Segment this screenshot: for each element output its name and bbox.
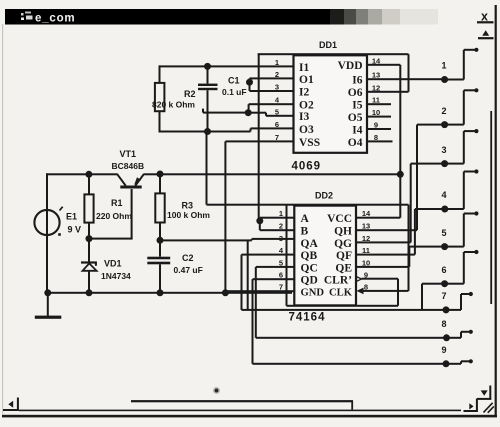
wire A to B (259, 218, 261, 231)
wire O1 to I2 (249, 78, 251, 91)
wire DD2 pinQB (242, 254, 295, 256)
chip DD2 right pin names (324, 213, 353, 299)
svg-text:1: 1 (441, 61, 446, 71)
label terminal 5 (441, 228, 446, 238)
switch contact 3 (445, 129, 479, 165)
svg-text:0.1 uF: 0.1 uF (222, 87, 247, 97)
switch contact 8 (447, 330, 473, 339)
node terminal 3 (441, 160, 448, 167)
node gnd C2 (157, 289, 164, 296)
resize grip (484, 403, 494, 413)
switch contact 5 (445, 211, 479, 247)
node gnd VD1 (86, 289, 93, 296)
switch contact 6 (445, 250, 479, 285)
chip DD1 left pin names (299, 62, 320, 149)
resistor R3 (155, 193, 164, 222)
chip DD2 right pin numbers (362, 209, 371, 292)
stray mark (213, 387, 220, 394)
wire QA down (247, 240, 249, 310)
svg-text:QF: QF (336, 250, 352, 262)
wire C2 top (159, 240, 161, 256)
node R3 top (157, 171, 164, 178)
wire VD1 bottom (88, 271, 90, 293)
wire DD2 pinQD (253, 278, 295, 280)
chip DD1 right pin names (338, 60, 363, 149)
svg-text:VD1: VD1 (104, 259, 122, 269)
wire R2 top (159, 65, 161, 83)
switch contact 2 (445, 88, 479, 125)
node gnd VSS (222, 289, 229, 296)
wire feedback bus (258, 54, 260, 221)
wire osc to CLK vertical (206, 132, 208, 205)
wire DD2 pinGND (225, 290, 294, 292)
wire I3 stub left (202, 109, 248, 114)
svg-text:O2: O2 (299, 100, 314, 112)
svg-text:2: 2 (441, 106, 446, 116)
transistor VT1 (117, 174, 143, 188)
wire DD1 pin8 stub (367, 140, 393, 142)
svg-text:4: 4 (441, 190, 446, 200)
svg-text:R2: R2 (184, 89, 196, 99)
svg-text:4069: 4069 (292, 160, 322, 172)
window title bar (5, 9, 438, 25)
svg-text:B: B (301, 226, 309, 238)
wire R2 bottom (159, 111, 161, 131)
wire DD1 pin12 (367, 91, 409, 93)
wire ground rail (46, 292, 292, 294)
svg-text:I6: I6 (352, 75, 362, 87)
svg-text:5: 5 (441, 228, 446, 238)
label 100 k Ohm (167, 210, 210, 220)
label C1 (228, 76, 240, 86)
wire QD down (252, 279, 254, 364)
svg-text:74164: 74164 (289, 312, 326, 324)
wire VT1 base (89, 189, 133, 240)
label DD1 (319, 40, 337, 50)
svg-text:O5: O5 (348, 112, 363, 124)
node terminal 6 (441, 280, 448, 287)
switch contact 4 (445, 169, 479, 210)
wire feedback top (258, 53, 409, 55)
wire osc top rail (159, 65, 294, 67)
svg-text:A: A (301, 213, 310, 225)
node VDD rail (397, 171, 404, 178)
title text e_com (35, 12, 75, 24)
label terminal 8 (441, 319, 446, 329)
node R3 C2 (157, 237, 164, 244)
wire DD1 pin2 (250, 77, 294, 79)
label terminal 1 (441, 61, 446, 71)
svg-text:DD1: DD1 (319, 40, 337, 50)
svg-text:QB: QB (301, 250, 318, 262)
label VD1 (104, 259, 122, 269)
label terminal 9 (441, 345, 446, 355)
wire DD2 pin10 QE (356, 266, 410, 268)
wire DD2 pin8 CLK (364, 290, 409, 292)
horizontal scrollbar track (19, 410, 461, 412)
wire O6 feedback vertical (408, 54, 410, 92)
wire DD1 pin7 VSS (225, 140, 293, 142)
node O1 I2 (246, 79, 253, 86)
svg-text:C2: C2 (182, 253, 194, 263)
node gnd E1 (44, 289, 51, 296)
label VT1 (120, 149, 137, 159)
node O2 I3 (245, 109, 252, 116)
svg-text:O4: O4 (348, 137, 363, 149)
wire C1 bottom (207, 90, 209, 131)
vertical scrollbar thumb (490, 111, 492, 304)
chip DD1 left pin numbers (275, 58, 280, 142)
svg-text:100 k Ohm: 100 k Ohm (167, 210, 210, 220)
wire QB down (241, 255, 243, 310)
wire CLR down (397, 279, 399, 306)
label 9 V (68, 225, 82, 235)
wire DD1 pin9 stub (367, 128, 392, 130)
wire terminal 6 down (421, 284, 423, 310)
wire osc to CLK horizontal (207, 204, 409, 206)
chip DD2 left pin numbers (279, 209, 284, 292)
label DD2 (315, 191, 333, 201)
svg-text:VDD: VDD (338, 60, 363, 72)
wire DD1 pin13 to terminal 1 (367, 78, 443, 80)
wire O2 to I3 (248, 104, 250, 113)
label R1 (111, 198, 123, 208)
wire osc branch down (286, 205, 288, 306)
svg-text:I2: I2 (299, 86, 309, 98)
svg-text:7: 7 (441, 291, 446, 301)
wire DD1 pin11 stub (367, 103, 392, 105)
svg-text:1: 1 (275, 58, 279, 67)
svg-text:QH: QH (334, 226, 352, 238)
wire DD1 pin10 stub (367, 116, 392, 118)
svg-text:VCC: VCC (327, 213, 352, 225)
chip DD1 box (294, 55, 368, 153)
wire R1 bottom (88, 223, 90, 239)
wire terminal 8 rail (256, 337, 444, 339)
chip DD2 box (294, 206, 356, 306)
label terminal 6 (441, 265, 446, 275)
wire QE to terminal 5 (408, 246, 442, 267)
ground symbol (35, 293, 62, 319)
svg-text:I1: I1 (299, 62, 309, 74)
wire DD1 pin1 (0, 0, 1, 1)
wire +V rail (46, 173, 401, 175)
label terminal 2 (441, 106, 446, 116)
label 74164 (289, 312, 326, 324)
resistor R2 (155, 83, 165, 111)
window right edge (495, 5, 497, 415)
wire DD2 pin11 QF (356, 254, 415, 256)
scroll down arrow button (477, 386, 491, 400)
svg-text:QC: QC (301, 262, 318, 274)
wire R1 top (88, 174, 90, 194)
window left edge (2, 24, 3, 414)
chip DD2 left pin names (301, 213, 325, 299)
label BC846B (112, 161, 145, 171)
label 0.1 uF (222, 87, 247, 97)
svg-text:6: 6 (275, 120, 279, 129)
wire DD2 pin9 CLR (362, 278, 399, 280)
svg-text:GND: GND (301, 288, 325, 299)
scroll up arrow button (478, 30, 494, 39)
label terminal 7 (441, 291, 446, 301)
wire DD2 pin13 QH (356, 229, 417, 231)
wire C1 top (207, 66, 209, 83)
node terminal 1 (441, 76, 448, 83)
wire VDD VCC vertical (399, 65, 401, 218)
node R1 top (85, 171, 92, 178)
svg-text:0.47 uF: 0.47 uF (174, 265, 203, 275)
label E1 (66, 212, 77, 222)
wire E1 through (46, 173, 48, 292)
resistor R1 (84, 194, 93, 222)
svg-text:I4: I4 (352, 124, 362, 136)
scroll left arrow button (3, 398, 19, 412)
wire DD2 pin12 QG (356, 241, 411, 243)
capacitor C2 (147, 257, 170, 265)
wire DD2 pinB (260, 229, 295, 231)
svg-text:8: 8 (441, 319, 446, 329)
svg-text:O1: O1 (299, 74, 314, 86)
switch contact 1 (445, 48, 479, 81)
svg-text:220 Ohm: 220 Ohm (96, 211, 132, 221)
svg-text:R1: R1 (111, 198, 123, 208)
svg-text:VT1: VT1 (120, 149, 137, 159)
wire C2 bottom (159, 264, 161, 293)
label 4069 (292, 160, 322, 172)
horizontal scrollbar thumb (131, 400, 353, 410)
svg-text:BC846B: BC846B (112, 161, 145, 171)
node C1 top (204, 63, 211, 70)
wire QF to terminal 4 (414, 208, 442, 255)
svg-text:QA: QA (301, 238, 319, 250)
svg-text:CLK: CLK (329, 288, 353, 299)
scroll right arrow button (464, 399, 478, 413)
wire R3 bottom (159, 223, 161, 241)
svg-text:QD: QD (301, 275, 318, 287)
svg-text:CLR’: CLR’ (324, 275, 352, 287)
wire CLK from osc vertical (408, 205, 410, 291)
wire DD1 pin3 (250, 90, 294, 92)
svg-text:O6: O6 (348, 87, 363, 99)
wire VD1 top (88, 239, 90, 262)
wire DD1 pin14 (367, 64, 401, 66)
wire R3 top (159, 174, 161, 193)
label 0.47 uF (174, 265, 203, 275)
node terminal 7 (443, 306, 450, 313)
label 220 Ohm (96, 211, 132, 221)
svg-text:O3: O3 (299, 124, 314, 136)
svg-text:820 k Ohm: 820 k Ohm (152, 99, 195, 109)
label terminal 3 (441, 145, 446, 155)
svg-text:6: 6 (441, 265, 446, 275)
svg-text:I3: I3 (299, 111, 309, 123)
wire QG to terminal 3 (410, 163, 442, 243)
wire osc bottom rail (159, 127, 294, 132)
node A B feedback (256, 217, 263, 224)
wire terminal 7 rail (242, 309, 444, 311)
wire terminal 6 left (422, 283, 442, 285)
node terminal 5 (441, 243, 448, 250)
node terminal 9 (443, 360, 450, 367)
window bottom edge (2, 415, 497, 418)
wire DD2 pinQC (256, 266, 295, 268)
wire DD2 pinA (260, 217, 295, 219)
pin CLR arrow (357, 277, 362, 282)
label R2 (184, 89, 196, 99)
label terminal 4 (441, 190, 446, 200)
svg-text:I5: I5 (352, 100, 362, 112)
close button X (477, 10, 494, 24)
svg-text:e_com: e_com (35, 12, 75, 24)
svg-text:C1: C1 (228, 76, 240, 86)
title bar icon (21, 12, 33, 21)
switch contact 7 (446, 292, 473, 311)
svg-text:QE: QE (335, 262, 352, 274)
svg-text:DD2: DD2 (315, 191, 333, 201)
capacitor C1 (198, 84, 218, 91)
svg-text:3: 3 (441, 145, 446, 155)
wire DD1 pin5 (248, 112, 294, 117)
wire DD1 pin4 (249, 103, 294, 105)
svg-text:9: 9 (441, 345, 446, 355)
node terminal 8 (443, 334, 450, 341)
voltage source E1 circle (34, 207, 62, 236)
wire QA R3C2 (160, 238, 295, 242)
node osc bottom (204, 128, 211, 135)
wire VSS to ground (224, 141, 226, 292)
node terminal 4 (441, 206, 448, 213)
wire terminal 9 rail (253, 363, 444, 365)
label 820 k Ohm (152, 99, 195, 109)
wire QH to terminal 2 (416, 124, 442, 231)
chip DD1 right pin numbers (372, 56, 381, 142)
wire DD2 pin14 VCC (356, 217, 401, 219)
svg-text:QG: QG (334, 238, 352, 250)
svg-text:1N4734: 1N4734 (101, 271, 131, 281)
node terminal 2 (441, 121, 448, 128)
wire QC down (255, 267, 257, 338)
svg-text:VSS: VSS (299, 137, 320, 149)
svg-text:R3: R3 (182, 201, 194, 211)
label R3 (182, 201, 194, 211)
wire CLR bottom rail (287, 305, 399, 307)
svg-text:E1: E1 (66, 212, 77, 222)
label 1N4734 (101, 271, 131, 281)
node R1 VD1 base (86, 235, 93, 242)
pin CLK clock arrow (357, 288, 364, 295)
svg-text:9 V: 9 V (68, 225, 82, 235)
switch contact 9 (446, 359, 473, 365)
zener diode VD1 (81, 261, 97, 270)
label C2 (182, 253, 194, 263)
